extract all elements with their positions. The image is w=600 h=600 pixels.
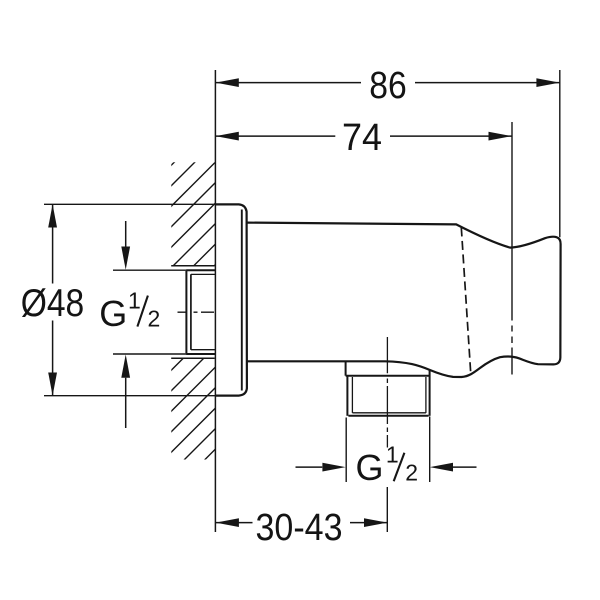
- dimension G12 bottom right line: [453, 466, 477, 468]
- dimension 74 line: [216, 135, 512, 137]
- inlet port thread root top: [191, 273, 216, 275]
- svg-text:Ø48: Ø48: [21, 282, 85, 325]
- extension line G12 bottom left: [345, 418, 347, 483]
- outlet thread root left: [351, 377, 353, 413]
- dimension diameter48 line: [52, 205, 54, 396]
- svg-text:74: 74: [342, 117, 382, 159]
- extension line diameter48 top: [44, 203, 216, 205]
- inlet port thread OD top: [186, 269, 215, 271]
- flange outline: [216, 204, 247, 395]
- extension line G12 bottom right: [429, 417, 431, 483]
- wall hole bottom edge: [171, 357, 215, 359]
- dimension G12 bottom left arrow: [322, 463, 345, 472]
- dimension 30-43 left arrow: [216, 518, 239, 527]
- dimension G12 left lower arrow: [121, 355, 130, 378]
- dimension 86 line: [216, 82, 560, 84]
- outlet thread outer right: [429, 370, 431, 416]
- holder body boundary dashed: [461, 228, 470, 372]
- dimension G12 left upper arrow: [121, 247, 130, 270]
- dimension G12 left upper line: [125, 221, 127, 247]
- svg-text:2: 2: [148, 306, 161, 332]
- inlet port end face: [185, 271, 187, 353]
- svg-text:1: 1: [386, 442, 399, 468]
- dimension G12 left lower line: [125, 378, 127, 428]
- label G 1/2 left: [99, 288, 160, 335]
- flange inner edge: [241, 210, 243, 391]
- inlet port chamfer edge: [190, 274, 192, 350]
- extension line 86 right: [559, 70, 561, 237]
- svg-text:2: 2: [405, 460, 418, 486]
- dimension G12 bottom right arrow: [430, 463, 453, 472]
- extension line diameter48 bottom: [44, 395, 216, 397]
- outlet collar left edge: [345, 361, 347, 375]
- svg-text:G: G: [356, 447, 384, 488]
- body and holder outline: [248, 223, 561, 377]
- label G 1/2 bottom: [356, 442, 418, 489]
- extension line 74: [511, 122, 513, 375]
- outlet centerline: [386, 337, 388, 448]
- dimension 74 left arrow: [216, 132, 239, 141]
- dimension 30-43 right arrow: [364, 518, 387, 527]
- svg-text:86: 86: [369, 65, 407, 107]
- svg-text:30-43: 30-43: [256, 507, 343, 549]
- outlet thread root right: [425, 377, 427, 413]
- inlet port thread root bottom: [191, 349, 216, 351]
- inlet port centerline: [178, 311, 215, 313]
- extension line G12 left bottom: [113, 353, 216, 355]
- dimension 86 left arrow: [216, 78, 239, 87]
- dimension G12 bottom left line: [296, 466, 323, 468]
- inlet port thread OD bottom: [186, 353, 215, 355]
- outlet thread outer left: [346, 376, 348, 416]
- dimension diameter48 bottom arrow: [48, 373, 57, 396]
- wall face line: [214, 70, 216, 532]
- dimension 30-43 line: [216, 522, 388, 524]
- dimension 86 right arrow: [536, 78, 559, 87]
- extension line G12 left top: [113, 269, 216, 271]
- outlet shoulder line: [346, 375, 430, 377]
- dimension 74 right arrow: [489, 132, 512, 141]
- extension line 30-43 right: [386, 487, 388, 532]
- dimension diameter48 top arrow: [48, 204, 57, 227]
- wall hole top edge: [171, 265, 215, 267]
- outlet thread root bottom: [352, 412, 426, 414]
- outlet thread bottom: [348, 415, 428, 417]
- svg-text:1: 1: [128, 288, 141, 314]
- svg-text:G: G: [99, 293, 127, 334]
